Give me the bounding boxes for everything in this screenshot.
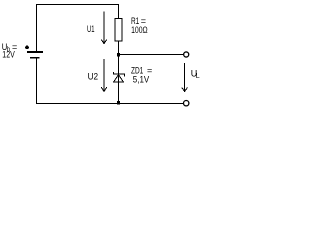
wire mid horizontal to terminal	[119, 54, 184, 56]
arrow U2	[101, 59, 107, 91]
label Ub =	[2, 42, 17, 54]
terminal upper	[184, 52, 189, 57]
battery Ub plus sign	[25, 46, 29, 50]
terminal lower	[184, 101, 189, 106]
arrow UL	[182, 63, 188, 92]
zener ZD1 triangle	[113, 75, 123, 83]
svg-text:5,1V: 5,1V	[133, 75, 149, 85]
wire left vertical upper	[36, 5, 38, 52]
battery Ub top plate	[27, 51, 43, 53]
svg-text:100Ω: 100Ω	[131, 25, 148, 35]
wire resistor bottom lead	[118, 41, 120, 55]
svg-text:U2: U2	[88, 72, 99, 82]
wire top rail	[36, 4, 119, 6]
zener ZD1 cathode bar	[113, 72, 124, 77]
svg-text:12V: 12V	[2, 50, 15, 60]
node junction bottom	[117, 101, 120, 104]
node junction top	[117, 53, 120, 56]
resistor R1	[115, 19, 122, 42]
wire bottom rail	[36, 103, 183, 105]
battery Ub bottom plate	[30, 57, 40, 59]
wire left vertical lower	[36, 59, 38, 104]
svg-text:L: L	[196, 73, 200, 80]
svg-text:U1: U1	[87, 24, 95, 34]
label UL	[191, 68, 200, 80]
arrow U1	[101, 12, 107, 44]
wire zener through and bottom lead	[118, 74, 120, 103]
wire resistor top lead	[118, 4, 120, 19]
wire zener top lead	[118, 55, 120, 75]
